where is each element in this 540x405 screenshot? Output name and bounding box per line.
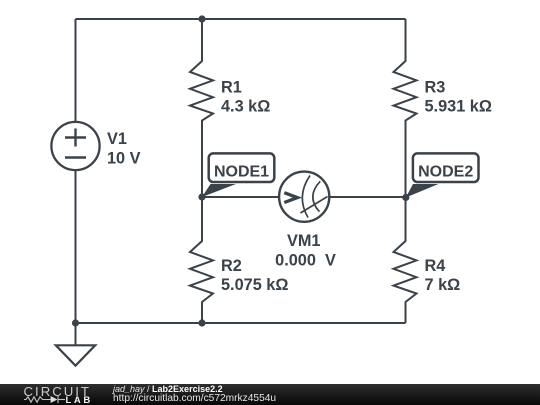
wire middle left (NODE1 to voltmeter) <box>202 196 280 198</box>
CircuitLab logo wordmark CIRCUIT <box>24 385 91 398</box>
junction dot NODE2 (406,197.5) <box>402 194 409 201</box>
svg-text:4.3 kΩ: 4.3 kΩ <box>221 98 270 116</box>
svg-text:NODE2: NODE2 <box>418 163 473 180</box>
svg-text:R2: R2 <box>221 257 242 275</box>
CircuitLab logo LAB text <box>66 396 93 405</box>
voltmeter VM1 <box>279 172 329 222</box>
wire ground stub <box>75 323 77 345</box>
footer title text line 1 <box>113 384 223 394</box>
node NODE2 callout <box>406 153 479 197</box>
resistor R2 <box>190 197 213 323</box>
svg-text:V1: V1 <box>107 130 127 148</box>
svg-text:R1: R1 <box>221 79 242 97</box>
CircuitLab logo circuit glyph (resistor + diode) <box>24 395 66 404</box>
svg-text:R3: R3 <box>425 79 446 97</box>
wire top rail <box>76 18 406 20</box>
svg-text:NODE1: NODE1 <box>214 163 269 180</box>
wire middle right (voltmeter to NODE2) <box>329 196 406 198</box>
label R2 value <box>221 257 288 294</box>
ground <box>56 345 95 365</box>
footer bar <box>0 384 540 405</box>
svg-text:7 kΩ: 7 kΩ <box>425 276 461 294</box>
resistor R4 <box>394 197 417 323</box>
junction dot top (202,19) <box>198 15 205 22</box>
wire left rail lower <box>75 171 77 324</box>
svg-text:10 V: 10 V <box>107 149 141 167</box>
wire bottom rail <box>76 322 406 324</box>
svg-text:0.000 V: 0.000 V <box>275 252 336 270</box>
label R4 value <box>425 257 461 294</box>
junction dot bottom middle (202,323) <box>198 319 205 326</box>
resistor R3 <box>394 19 417 197</box>
svg-text:R4: R4 <box>425 257 446 275</box>
junction dot bottom left (75.5,323) <box>72 319 79 326</box>
svg-text:5.075 kΩ: 5.075 kΩ <box>221 276 288 294</box>
svg-text:5.931 kΩ: 5.931 kΩ <box>425 98 492 116</box>
junction dot NODE1 (202,197) <box>198 193 205 200</box>
voltage source V1 <box>51 122 99 170</box>
label R1 value <box>221 79 270 116</box>
label R3 value <box>425 79 492 116</box>
svg-text:VM1: VM1 <box>287 232 320 250</box>
resistor R1 <box>190 19 213 197</box>
label V1 value <box>107 130 141 167</box>
node NODE1 callout <box>202 153 274 197</box>
wire left rail upper <box>75 19 77 122</box>
footer url text line 2 <box>113 394 276 404</box>
label VM1 value <box>275 232 336 270</box>
